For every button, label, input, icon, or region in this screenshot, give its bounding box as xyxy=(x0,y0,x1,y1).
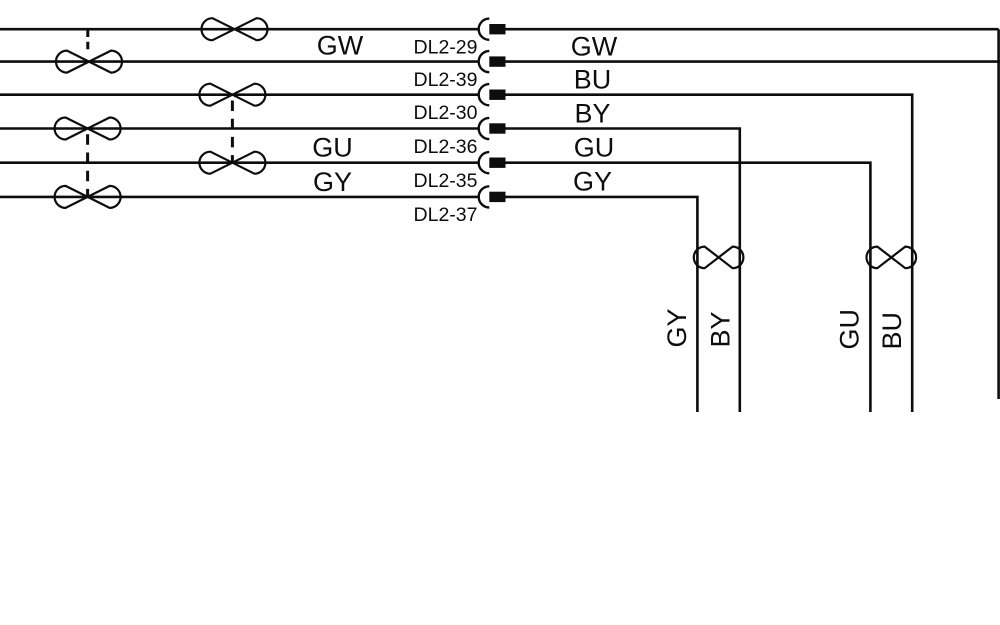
label DL2-39 xyxy=(414,69,478,91)
label BU right xyxy=(574,65,612,95)
label GU rotated xyxy=(834,309,864,350)
wire W6 right segment (GY) with corner down to DE11-1 xyxy=(506,197,698,412)
wire W2 right segment (GW, off right edge) xyxy=(506,60,1000,63)
svg-text:GU: GU xyxy=(834,309,864,350)
label GY left xyxy=(313,167,352,197)
wire W1 left segment (DL2-29) xyxy=(0,28,479,31)
svg-text:DL2-30: DL2-30 xyxy=(414,102,478,124)
label DL2-36 xyxy=(414,136,478,158)
connector DL2-39 xyxy=(479,51,506,72)
connector DL2-36 xyxy=(479,118,506,139)
label GY rotated xyxy=(662,308,692,347)
dashed pairing link W1-W2 xyxy=(86,30,89,52)
svg-text:BU: BU xyxy=(574,65,612,95)
twisted-pair symbol on wire W3 xyxy=(199,84,265,106)
svg-text:GY: GY xyxy=(573,167,612,197)
label BY right xyxy=(574,98,610,128)
label GW right xyxy=(571,32,618,62)
connector DL2-30 xyxy=(479,84,506,105)
svg-text:DL2-37: DL2-37 xyxy=(414,204,478,226)
svg-text:BY: BY xyxy=(574,98,610,128)
svg-text:GU: GU xyxy=(312,133,353,163)
wire W3 right segment (BU) with corner down to DE12-2 xyxy=(506,95,913,412)
svg-text:DL2-35: DL2-35 xyxy=(414,170,478,192)
svg-text:GU: GU xyxy=(574,133,615,163)
svg-text:BY: BY xyxy=(706,311,736,347)
label DL2-29 xyxy=(414,37,478,59)
label BU rotated xyxy=(877,312,907,350)
label GU right xyxy=(574,133,615,163)
connector DL2-29 (socket arc + pin square) xyxy=(479,19,506,40)
label GU left xyxy=(312,133,353,163)
wire W1 right segment to right edge xyxy=(506,28,999,31)
wire W4 right segment (BY) with corner down to DE11-2 xyxy=(506,129,740,413)
wire W6 left segment (GY) xyxy=(0,196,479,199)
twisted-pair symbol on wire W2 xyxy=(56,51,122,73)
twisted-pair symbol on wire W1 xyxy=(202,18,268,40)
wire W5 right segment (GU) with corner down to DE12-1 xyxy=(506,163,871,412)
connector DL2-35 xyxy=(479,152,506,173)
dashed pairing link W3-W5 xyxy=(231,101,234,164)
twisted-pair symbol GY/BY pair xyxy=(694,247,744,269)
twisted-pair symbol on wire W5 xyxy=(199,152,265,174)
dashed pairing link W4-W6 xyxy=(86,134,89,196)
label GW left xyxy=(317,31,364,61)
svg-text:BU: BU xyxy=(877,312,907,350)
wire W2 left segment (GW) xyxy=(0,60,479,63)
label DL2-37 xyxy=(414,204,478,226)
wire W4 left segment (BY) xyxy=(0,127,479,130)
wire W1 vertical drop at right edge (to DE13) xyxy=(997,29,1000,399)
svg-text:GY: GY xyxy=(313,167,352,197)
connector DL2-37 xyxy=(479,186,506,207)
twisted-pair symbol GU/BU pair xyxy=(867,247,917,269)
svg-text:GW: GW xyxy=(317,31,364,61)
label BY rotated xyxy=(706,311,736,347)
label DL2-35 xyxy=(414,170,478,192)
wire W3 left segment (BU) xyxy=(0,93,479,96)
twisted-pair symbol on wire W6 xyxy=(55,186,121,208)
svg-text:DL2-36: DL2-36 xyxy=(414,136,478,158)
svg-text:DL2-39: DL2-39 xyxy=(414,69,478,91)
svg-text:DL2-29: DL2-29 xyxy=(414,37,478,59)
wire W5 left segment (GU) xyxy=(0,161,479,164)
label GY right xyxy=(573,167,612,197)
label DL2-30 xyxy=(414,102,478,124)
svg-text:GY: GY xyxy=(662,308,692,347)
svg-text:GW: GW xyxy=(571,32,618,62)
twisted-pair symbol on wire W4 xyxy=(55,118,121,140)
